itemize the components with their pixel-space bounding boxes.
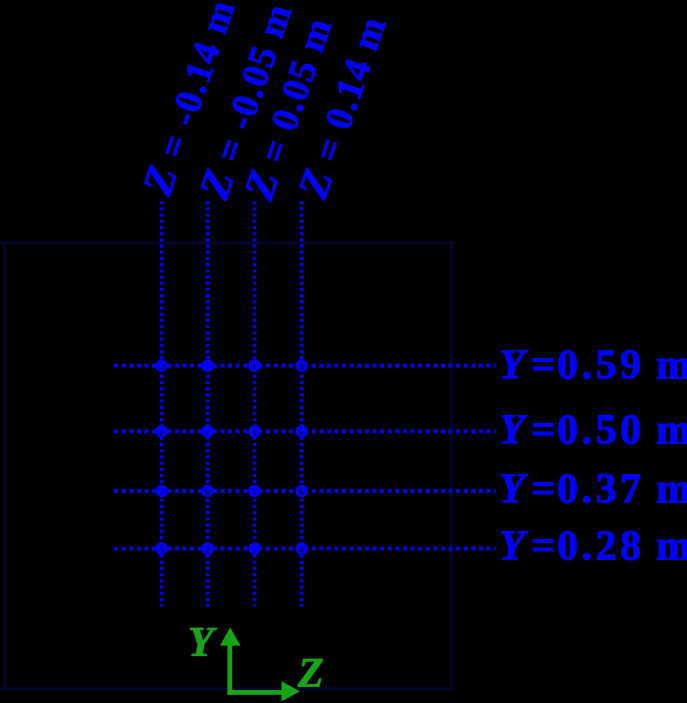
svg-text:b: b (205, 487, 209, 497)
marker at Z = 0.14 m, Y = 0.59 m (295, 360, 307, 372)
detector frame: bottom edge (0, 687, 453, 691)
svg-text:5: 5 (299, 362, 303, 372)
axis arrow Y (green, up) (220, 628, 241, 695)
marker at Z = 0.05 m, Y = 0.28 m (248, 542, 260, 554)
grid line Y = 0.50 m (horizontal) (114, 429, 495, 433)
marker at Z = -0.05 m, Y = 0.37 m (201, 485, 213, 497)
detector frame: top edge (0, 241, 453, 244)
grid line Z = 0.14 m (vertical) (300, 201, 304, 606)
svg-text:r: r (206, 427, 209, 437)
marker at Z = -0.05 m, Y = 0.50 m (201, 425, 213, 437)
svg-text:Y=0.28m: Y=0.28m (499, 524, 687, 570)
svg-text:Y=0.50m: Y=0.50m (499, 408, 687, 454)
marker at Z = 0.05 m, Y = 0.37 m (248, 485, 260, 497)
svg-text:2: 2 (205, 545, 209, 555)
marker at Z = -0.14 m, Y = 0.50 m (155, 425, 167, 437)
svg-text:Y: Y (188, 620, 217, 666)
tiny id digits inside markers (157, 362, 304, 555)
marker at Z = 0.14 m, Y = 0.37 m (295, 485, 307, 497)
marker at Z = -0.14 m, Y = 0.59 m (155, 360, 167, 372)
marker at Z = -0.14 m, Y = 0.37 m (155, 485, 167, 497)
axis arrow Z (green, right) (227, 681, 300, 701)
svg-text:2: 2 (252, 487, 256, 497)
svg-text:Y=0.37m: Y=0.37m (499, 467, 687, 513)
svg-text:0: 0 (299, 545, 303, 555)
svg-text:13: 13 (157, 362, 166, 372)
markers at grid intersections (155, 360, 307, 555)
marker at Z = 0.05 m, Y = 0.59 m (248, 360, 260, 372)
svg-text:Z: Z (297, 651, 324, 697)
grid line Y = 0.59 m (horizontal) (114, 364, 495, 368)
svg-text:2: 2 (252, 545, 256, 555)
marker at Z = 0.14 m, Y = 0.28 m (295, 542, 307, 554)
grid line Z = -0.05 m (vertical) (206, 201, 210, 606)
grid line Y = 0.37 m (horizontal) (114, 489, 495, 493)
svg-text:1: 1 (252, 427, 256, 437)
grid line Z = 0.05 m (vertical) (253, 201, 257, 606)
grid line Z = -0.14 m (vertical) (160, 201, 164, 606)
detector frame: right edge (449, 241, 453, 691)
marker at Z = 0.05 m, Y = 0.50 m (248, 425, 260, 437)
marker at Z = -0.05 m, Y = 0.28 m (201, 542, 213, 554)
svg-text:Y=0.59m: Y=0.59m (499, 343, 687, 389)
marker at Z = 0.14 m, Y = 0.50 m (295, 425, 307, 437)
grid line Y = 0.28 m (horizontal) (114, 547, 495, 551)
svg-text:1: 1 (205, 362, 209, 372)
svg-text:1: 1 (252, 362, 256, 372)
svg-text:5: 5 (159, 545, 163, 555)
svg-text:c: c (160, 427, 164, 437)
detector frame: left edge (3, 241, 6, 691)
marker at Z = -0.05 m, Y = 0.59 m (201, 360, 213, 372)
marker at Z = -0.14 m, Y = 0.28 m (155, 542, 167, 554)
svg-text:b: b (299, 487, 303, 497)
